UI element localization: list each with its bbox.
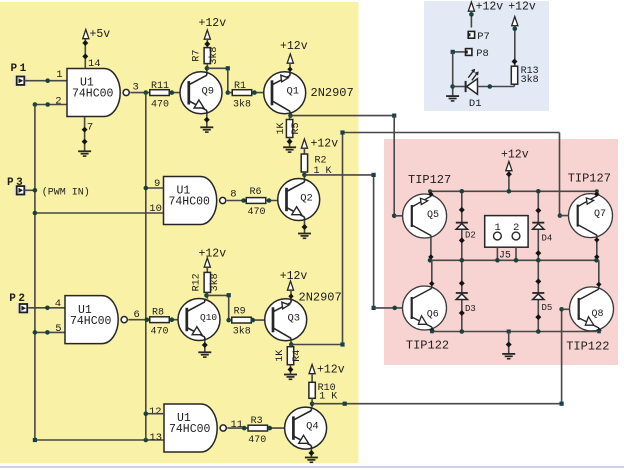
- wire Q5 emitter stub: [428, 191, 433, 197]
- node middle rail dots: [428, 258, 599, 263]
- svg-text:3k8: 3k8: [208, 47, 220, 65]
- connector P2: [9, 293, 30, 314]
- label J5: [499, 250, 511, 261]
- resistor R12: [192, 272, 221, 292]
- ground Q10: [198, 352, 211, 357]
- svg-text:Q7: Q7: [594, 209, 606, 220]
- diode D3: [456, 262, 476, 330]
- node phantom Q6 base: [392, 306, 397, 311]
- wire pin12: [146, 413, 164, 415]
- svg-text:3k8: 3k8: [233, 99, 251, 111]
- svg-text:5: 5: [55, 323, 61, 335]
- svg-text:74HC00: 74HC00: [70, 315, 112, 328]
- resistor R9: [232, 306, 252, 337]
- pin 5 label: [55, 323, 61, 335]
- wire Q6 emitter stub: [429, 328, 434, 333]
- node R9 right dot: [251, 318, 256, 323]
- node Q2 collector junction: [302, 173, 307, 178]
- svg-text:TIP122: TIP122: [566, 340, 609, 354]
- pin 10 label: [149, 203, 162, 215]
- wire P3 to bus: [24, 189, 35, 191]
- svg-text:Q8: Q8: [592, 309, 604, 320]
- wire Q4 emitter ground: [308, 449, 314, 457]
- page bottom border: [0, 466, 624, 468]
- svg-text:10: 10: [149, 203, 162, 215]
- node R3 left dot: [242, 426, 247, 431]
- resistor R4: [275, 347, 303, 365]
- svg-text:2N2907: 2N2907: [311, 86, 354, 100]
- transistor Q7: [569, 194, 613, 238]
- svg-text:74HC00: 74HC00: [169, 423, 211, 436]
- wire to Q6 base: [374, 307, 411, 309]
- supply +12v Q3: [280, 270, 308, 290]
- resistor R11: [150, 81, 170, 111]
- wire bottom rail: [430, 331, 597, 333]
- diode D2: [456, 194, 476, 259]
- svg-text:+12v: +12v: [280, 270, 308, 283]
- node pin9 junction: [144, 186, 149, 191]
- wire arrow to P7: [469, 11, 474, 28]
- svg-text:Q10: Q10: [200, 312, 217, 323]
- wire Q8 collector stub: [596, 260, 601, 287]
- svg-text:D2: D2: [465, 230, 476, 240]
- wire Q6 collector stub: [429, 260, 434, 286]
- node R12 junction: [204, 293, 209, 298]
- wire R12 node to R9: [207, 295, 229, 320]
- svg-text:+12v: +12v: [476, 0, 504, 13]
- label TIP127 Q5: [408, 173, 451, 187]
- node output junction: [144, 90, 149, 95]
- wire Q3 emitter: [288, 290, 293, 299]
- wire gate D output: [227, 427, 248, 429]
- wire bridge ground stem: [506, 332, 512, 354]
- svg-text:P7: P7: [477, 31, 490, 43]
- wire net A horizontal: [291, 115, 395, 117]
- ground D1: [446, 96, 459, 101]
- supply +12v R2: [301, 137, 338, 150]
- pin 4 label: [55, 298, 61, 310]
- node Q3 collector junction: [289, 342, 294, 347]
- wire arrow to R12: [206, 267, 208, 272]
- transistor Q2: [278, 179, 320, 221]
- resistor R10: [309, 382, 337, 402]
- label TIP122 Q6: [406, 338, 449, 352]
- wire R6 to Q2 base: [266, 200, 287, 202]
- resistor R8: [150, 308, 170, 338]
- svg-text:R11: R11: [151, 81, 169, 92]
- yellow logic region: [0, 2, 359, 463]
- node net B corners: [340, 130, 344, 346]
- wire arrow to R2: [303, 148, 305, 154]
- wire Q5 collector stub: [428, 237, 433, 261]
- node R6 right dot: [267, 198, 272, 203]
- wire pin5: [35, 331, 65, 333]
- svg-text:470: 470: [248, 207, 266, 218]
- svg-text:Q2: Q2: [300, 193, 313, 205]
- svg-text:R3: R3: [251, 416, 263, 427]
- label 2N2907 Q1: [311, 86, 354, 100]
- resistor R13: [511, 66, 538, 86]
- wire arrow to R13: [512, 26, 518, 67]
- svg-text:P8: P8: [476, 48, 489, 60]
- wire R4 ground stem: [288, 365, 294, 375]
- svg-text:R7: R7: [192, 50, 203, 62]
- svg-text:+5v: +5v: [90, 28, 111, 41]
- node pin2 junctions: [33, 102, 50, 107]
- wire R4 top: [290, 345, 292, 347]
- supply +12v P7: [468, 0, 503, 13]
- wire corner to R1: [228, 92, 232, 94]
- svg-text:Q6: Q6: [427, 310, 439, 321]
- wire arrow to rail: [506, 171, 512, 192]
- wire to Q7 base: [560, 215, 577, 217]
- svg-text:7: 7: [87, 122, 93, 134]
- svg-text:+12v: +12v: [199, 17, 227, 30]
- wire R7 node to R1: [207, 68, 228, 92]
- node net A corner: [392, 114, 396, 118]
- diode D4: [532, 194, 552, 259]
- wire Q9 collector: [206, 68, 208, 72]
- node R3 right dot: [268, 426, 273, 431]
- transistor Q8: [570, 287, 614, 331]
- ground gate A: [78, 151, 91, 156]
- resistor R5: [276, 120, 302, 138]
- wire gate B output: [227, 200, 246, 202]
- node pin12 junction: [144, 411, 149, 416]
- wire middle rail: [430, 259, 597, 261]
- wire R2 bottom: [303, 172, 305, 179]
- transistor Q3: [265, 299, 307, 341]
- wire arrow to R7: [204, 39, 210, 48]
- svg-text:3k8: 3k8: [233, 325, 251, 337]
- svg-text:+12v: +12v: [501, 148, 529, 161]
- pin 3 label: [133, 82, 139, 94]
- svg-text:R1: R1: [234, 81, 246, 92]
- pin 8 label: [230, 189, 236, 201]
- svg-text:1K: 1K: [275, 350, 286, 362]
- supply +12v R10: [309, 363, 345, 376]
- wire R8 to Q10 base: [170, 319, 188, 321]
- node pin13 junction: [144, 438, 149, 443]
- svg-text:1 K: 1 K: [319, 392, 337, 403]
- svg-text:TIP127: TIP127: [568, 172, 611, 186]
- node P8 corner: [451, 50, 455, 54]
- node Q8 base junction: [559, 307, 564, 312]
- pin 13 label: [149, 432, 162, 444]
- node pin5 junctions: [33, 330, 50, 335]
- svg-text:3k8: 3k8: [521, 74, 539, 86]
- led D1: [453, 70, 478, 95]
- svg-text:TIP127: TIP127: [408, 173, 451, 187]
- svg-text:1K: 1K: [276, 122, 287, 134]
- node R1 right dot: [252, 90, 257, 95]
- supply +12v bridge: [501, 148, 529, 170]
- svg-text:Q1: Q1: [287, 85, 300, 97]
- svg-text:2N2907: 2N2907: [299, 290, 342, 304]
- wire Q1 emitter: [287, 63, 292, 72]
- svg-text:+12v: +12v: [311, 137, 339, 150]
- wire R3 to Q4 base: [268, 427, 294, 429]
- svg-text:P2: P2: [9, 293, 27, 305]
- label PWM IN: [42, 186, 90, 198]
- wire to Q8 base: [562, 308, 578, 310]
- svg-text:R12: R12: [192, 273, 203, 291]
- wire R7 bottom: [206, 64, 208, 69]
- connector J5: [485, 216, 528, 248]
- svg-text:74HC00: 74HC00: [72, 88, 114, 101]
- svg-text:14: 14: [88, 58, 101, 70]
- node Q6 base corner: [372, 306, 376, 310]
- connector P3: [7, 177, 27, 196]
- pink h-bridge region: [384, 139, 618, 365]
- svg-text:P1: P1: [11, 63, 29, 75]
- connector P1: [11, 63, 29, 86]
- label TIP127 Q7: [568, 172, 611, 186]
- wire corner to R9: [229, 319, 233, 321]
- op-amp U1 gate C 74HC00: [65, 296, 127, 344]
- svg-text:TIP122: TIP122: [406, 338, 449, 352]
- svg-text:470: 470: [248, 435, 266, 446]
- supply +12v R13: [508, 0, 536, 25]
- pin 11 label: [231, 419, 244, 431]
- transistor Q6: [403, 286, 447, 330]
- wire P2 to pin4: [28, 307, 65, 309]
- ground Q9: [200, 127, 213, 132]
- svg-text:74HC00: 74HC00: [169, 196, 211, 209]
- pin 2 label: [55, 95, 61, 107]
- connector P8: [466, 48, 489, 60]
- svg-text:D5: D5: [542, 303, 553, 313]
- wire Q3 collector: [290, 341, 292, 345]
- wire gate C output: [128, 319, 149, 321]
- wire pin7 ground stem: [84, 117, 86, 151]
- svg-text:D4: D4: [542, 234, 553, 244]
- ground Q2: [298, 234, 311, 239]
- resistor R3: [248, 416, 267, 446]
- node Q1 collector junction: [288, 113, 293, 118]
- wire pin10: [35, 212, 164, 214]
- ground R5: [283, 147, 296, 152]
- wire top rail: [430, 190, 597, 192]
- svg-text:4: 4: [55, 298, 61, 310]
- pin 9 label: [154, 178, 160, 190]
- wire pin9: [146, 187, 164, 189]
- diode D5: [532, 262, 552, 330]
- wire Q2 emitter ground: [302, 220, 308, 233]
- wire Q7 emitter stub: [594, 191, 599, 197]
- resistor R2: [301, 154, 331, 177]
- svg-text:13: 13: [149, 432, 162, 444]
- svg-text:470: 470: [151, 100, 169, 111]
- svg-text:Q4: Q4: [306, 421, 319, 433]
- svg-text:+12v: +12v: [508, 0, 536, 13]
- svg-text:R8: R8: [152, 308, 164, 319]
- svg-text:(PWM IN): (PWM IN): [42, 186, 90, 198]
- wire net A vertical: [393, 116, 395, 216]
- wire Q10 emitter ground: [202, 340, 208, 352]
- wire output bus vertical: [145, 93, 147, 440]
- svg-text:R9: R9: [234, 306, 246, 317]
- wire Q8 emitter stub: [596, 328, 601, 333]
- wire led anode vertical: [452, 52, 454, 96]
- node Q7 base junction: [558, 213, 563, 218]
- pin 6 label: [134, 309, 140, 321]
- node pin14 dot: [82, 40, 88, 59]
- blue indicator region: [424, 1, 549, 111]
- svg-text:+12v: +12v: [317, 363, 345, 376]
- wire Q2 collector net: [304, 175, 373, 308]
- supply +12v R7: [199, 17, 227, 39]
- ground bridge: [502, 354, 515, 359]
- svg-text:470: 470: [151, 326, 169, 337]
- svg-text:P3: P3: [7, 177, 25, 189]
- svg-text:3k8: 3k8: [209, 273, 221, 291]
- svg-text:D3: D3: [465, 304, 476, 314]
- node corner R9: [226, 293, 231, 322]
- wire gate A output: [130, 92, 149, 94]
- label 2N2907 Q3: [299, 290, 342, 304]
- transistor Q9: [180, 72, 222, 114]
- svg-text:11: 11: [231, 419, 244, 431]
- node Q4 net dots: [343, 402, 564, 406]
- wire R10 bottom: [311, 398, 313, 407]
- wire pin14 supply: [84, 39, 86, 69]
- supply +12v Q1: [280, 40, 308, 63]
- wire led cathode: [478, 84, 515, 89]
- svg-text:Q9: Q9: [202, 85, 215, 97]
- pin 7 label: [87, 122, 93, 134]
- transistor Q10: [178, 299, 220, 341]
- svg-text:2: 2: [55, 95, 61, 107]
- wire to R13 bottom: [513, 84, 515, 86]
- svg-text:Q5: Q5: [427, 210, 439, 221]
- wire Q1 collector: [289, 114, 291, 116]
- wire Q7 collector stub: [594, 236, 599, 260]
- pin 14 label: [88, 58, 101, 70]
- wire P1 to pin1: [24, 80, 67, 82]
- node top rail dots: [428, 189, 599, 194]
- wire input bus vertical: [34, 105, 36, 441]
- wire Q4 net: [312, 309, 561, 403]
- supply +5v arrow: [83, 28, 111, 41]
- pin 12 label: [149, 406, 162, 418]
- wire R5 ground stem: [287, 138, 293, 148]
- svg-text:+12v: +12v: [199, 248, 227, 261]
- wire pin2: [35, 104, 67, 106]
- op-amp U1 gate D 74HC00: [164, 404, 226, 452]
- wire J5 pin stubs: [497, 247, 516, 260]
- wire pin13: [35, 439, 164, 441]
- label TIP122 Q8: [566, 340, 609, 354]
- wire net B: [291, 133, 559, 345]
- label D1: [469, 98, 482, 110]
- resistor R1: [232, 81, 252, 111]
- resistor R7: [192, 47, 221, 65]
- wire R1 to Q1 base: [252, 92, 273, 94]
- node pin10 junction: [33, 211, 38, 216]
- svg-text:R5: R5: [291, 122, 302, 134]
- ground Q4: [305, 458, 318, 463]
- node R8 left dot: [145, 317, 150, 322]
- svg-text:+12v: +12v: [280, 40, 308, 53]
- wire Q9 emitter ground: [204, 114, 210, 127]
- supply +12v R12: [199, 248, 227, 268]
- svg-text:Q3: Q3: [288, 312, 301, 324]
- wire R9 to Q3 base: [252, 319, 275, 321]
- node pin1 junction: [45, 78, 50, 83]
- node R8 right dot: [170, 317, 175, 322]
- wire P8 left: [453, 51, 465, 53]
- node Q2 net corner: [372, 173, 376, 177]
- node Q4 collector junction: [310, 401, 315, 406]
- wire arrow to R10: [311, 374, 313, 383]
- ground R4: [284, 375, 297, 380]
- node led anode junction: [450, 84, 455, 89]
- wire R12 bottom: [206, 292, 208, 298]
- node pin4 junction: [45, 306, 50, 311]
- node Q5 base junction: [392, 214, 397, 219]
- wire R5 top: [289, 116, 291, 120]
- pin 1 label: [56, 69, 62, 81]
- transistor Q4: [285, 407, 327, 449]
- op-amp U1 gate A 74HC00: [67, 69, 129, 117]
- op-amp U1 gate B 74HC00: [164, 177, 226, 225]
- transistor Q5: [403, 194, 447, 238]
- svg-text:R2: R2: [315, 155, 327, 166]
- svg-text:8: 8: [230, 189, 236, 201]
- svg-text:R6: R6: [250, 187, 262, 198]
- svg-text:R4: R4: [292, 350, 303, 362]
- wire to Q5 base: [394, 215, 410, 217]
- wire R11 to Q9 base: [170, 92, 189, 94]
- node pin13 corner: [33, 438, 37, 442]
- node R11 right dot: [170, 90, 175, 95]
- resistor R6: [246, 187, 266, 218]
- pin7 stem diamonds: [82, 127, 88, 145]
- node corner R1: [226, 66, 231, 95]
- svg-text:12: 12: [149, 406, 162, 418]
- node P3 junction: [33, 188, 38, 193]
- node R7 junction: [205, 66, 210, 71]
- svg-text:1: 1: [56, 69, 62, 81]
- transistor Q1: [264, 72, 306, 114]
- connector P7: [468, 31, 490, 43]
- node bottom rail dots: [430, 329, 601, 334]
- svg-text:D1: D1: [469, 98, 482, 110]
- node R6 left dot: [241, 198, 246, 203]
